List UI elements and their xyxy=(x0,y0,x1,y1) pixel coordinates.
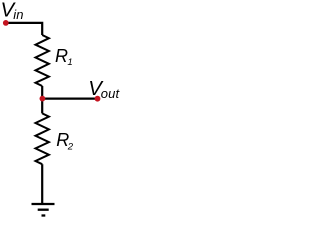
svg-text:out: out xyxy=(101,86,120,101)
svg-text:R: R xyxy=(55,46,68,66)
node Vout xyxy=(95,96,101,102)
svg-text:in: in xyxy=(13,7,23,22)
svg-text:2: 2 xyxy=(67,142,74,153)
resistor R1 xyxy=(36,35,49,86)
wire junction to Vout xyxy=(42,97,97,99)
wire junction down to R2 xyxy=(41,99,43,114)
wire Vin horizontal and down to R1 xyxy=(6,23,42,35)
node junction (Vout tap) xyxy=(40,96,46,102)
node Vin xyxy=(3,20,9,26)
resistor R2 xyxy=(36,113,49,164)
svg-text:1: 1 xyxy=(67,57,72,68)
wire R2 to ground xyxy=(41,164,43,204)
wire R1 to junction xyxy=(41,86,43,99)
ground xyxy=(32,204,55,216)
